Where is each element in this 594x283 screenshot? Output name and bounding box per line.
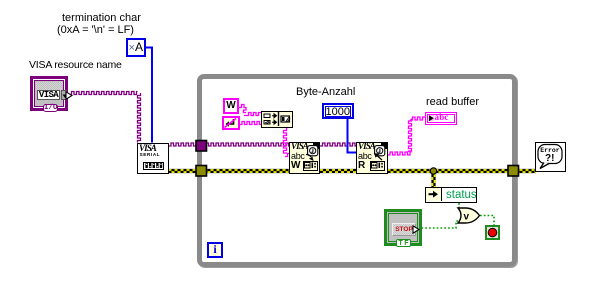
tunnel: VISA resource (purple) on left loop border [196,141,207,152]
wire: status boolean to Or gate (green dotted) [458,203,460,208]
function: Or gate [456,206,482,226]
tunnel: error cluster (olive) on right loop border [508,166,519,177]
control: stop button terminal [384,209,422,246]
wire: Or gate to loop condition terminal (green dotted) [480,216,494,226]
wire: EOL constant to Concatenate Strings (pink zigzag) [240,122,262,125]
wire: VISA resource VISA Write to VISA Read (purple zigzag) [320,143,356,146]
constant: W string (pink) [223,98,239,114]
wire: VISA resource from config node through tunnel to VISA Write (purple zigzag) [169,143,290,146]
label: read buffer [426,97,479,108]
label: VISA resource name [29,60,122,71]
constant: 1000 byte count (blue double border) [322,103,354,119]
wire: termination char constant to config node (blue) [146,48,152,143]
wire: stop button to Or gate (green dotted) [422,221,461,228]
wire: W string constant to Concatenate Strings (pink zigzag) [239,105,261,116]
node: Concatenate Strings [261,111,293,128]
control: VISA resource name terminal [30,76,68,111]
label: Byte-Anzahl [296,87,355,98]
node: VISA Configure Serial Port [137,143,169,174]
svg-text:v: v [464,211,470,222]
wire: error cluster VISA Write to VISA Read (yellow/black dashed) [320,170,356,172]
wire: Concatenate Strings to VISA Write data input (pink zigzag) [284,128,290,157]
wire: error cluster VISA Read to error handler through tunnel (yellow/black dashed) [388,170,537,172]
label: termination char [62,13,141,24]
wire: VISA Read data out to read buffer indicator (pink zigzag) [388,117,426,155]
node: VISA Read [356,142,388,174]
wire: VISA resource name to VISA Configure Serial Port (purple zigzag) [69,92,141,143]
wire: error cluster config node to VISA Write (yellow/black dashed) [169,170,290,172]
subVI: Simple Error Handler (Error ?!) [535,142,566,172]
wire: error branch down to Unbundle status (yellow/black dashed vertical) [432,171,434,188]
constant: termination char xA (blue) [126,38,147,57]
label: (0xA = '\n' = LF) [57,25,134,36]
indicator: read buffer (pink string) [425,112,457,125]
terminal: loop condition (stop if true) [485,225,500,240]
wire: 1000 byte count to VISA Read (blue) [348,119,357,153]
tunnel: error cluster (olive) on left loop border [196,166,207,177]
iteration terminal i [207,242,223,258]
constant: EOL char (pink box, slashed arrow icon) [222,116,240,130]
svg-text:?!: ?! [545,153,554,164]
node: VISA Write [289,142,320,174]
node: Unbundle by Name (status) [425,187,477,203]
junction on error wire [430,168,436,174]
while loop border [197,74,517,267]
